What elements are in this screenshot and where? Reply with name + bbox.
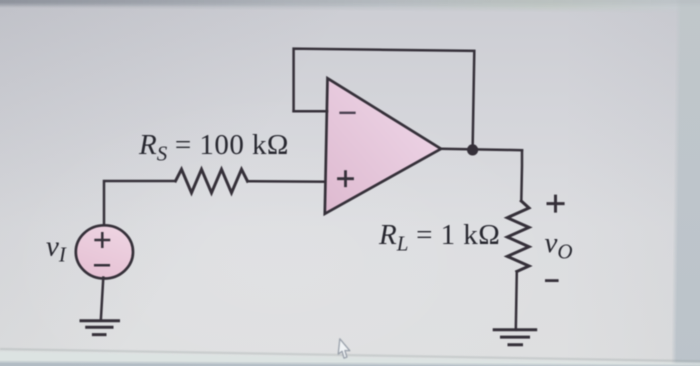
- page bottom edge shadow line: [0, 348, 700, 363]
- wire: feedback loop: [294, 49, 475, 150]
- ground (source): [81, 321, 119, 335]
- source plus sign: [96, 233, 109, 246]
- svg-text:RS = 100 kΩ: RS = 100 kΩ: [138, 129, 289, 166]
- op-amp plus sign: [339, 172, 353, 186]
- dark top edge of photo: [0, 0, 700, 7]
- op-amp U1: [325, 78, 441, 214]
- dark desk strip at bottom: [0, 360, 700, 366]
- desk strip above page edge: [0, 0, 700, 14]
- wire: op-amp output: [441, 149, 522, 150]
- wire: op-amp - input stub: [294, 110, 327, 113]
- wire: resistor RS to op-amp + input: [248, 180, 328, 183]
- wire: RL bottom to ground: [516, 272, 517, 330]
- wire: source top to resistor RS: [104, 181, 174, 227]
- svg-text:vO: vO: [545, 227, 573, 263]
- mouse cursor: [338, 339, 352, 359]
- op-amp minus sign: [341, 112, 355, 114]
- source minus sign: [95, 264, 109, 267]
- wire: output corner down to RL: [520, 150, 523, 201]
- light band below page bottom edge: [0, 349, 700, 366]
- wire: source bottom to ground: [101, 278, 104, 321]
- voltage source vI: [76, 225, 133, 278]
- plus sign vO: [547, 195, 565, 213]
- resistor RS: [176, 169, 248, 193]
- svg-text:RL = 1 kΩ: RL = 1 kΩ: [378, 219, 500, 256]
- desk band right of page edge: [671, 0, 700, 366]
- minus sign vO: [545, 279, 559, 282]
- svg-text:vI: vI: [46, 231, 67, 267]
- ground (load): [494, 330, 536, 345]
- resistor RL: [507, 201, 529, 272]
- node: output junction: [467, 144, 478, 155]
